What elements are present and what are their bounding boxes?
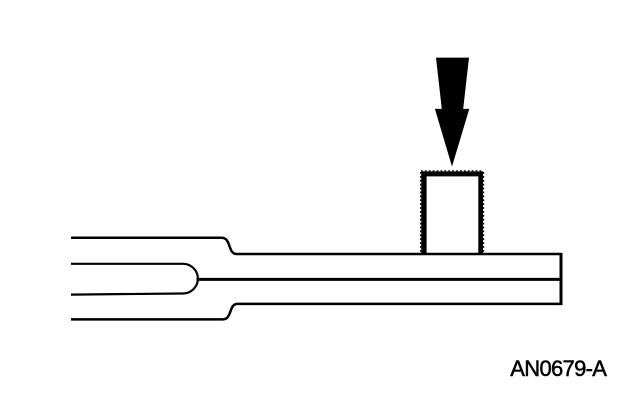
- blade bottom outline: [71, 304, 560, 320]
- svg-text:AN0679-A: AN0679-A: [510, 356, 607, 381]
- slot outline (rounded end): [71, 264, 198, 295]
- arrow pointing down: [435, 58, 469, 167]
- blade middle line: [197, 278, 562, 281]
- block rough outer edge texture: [420, 172, 422, 254]
- block on blade: [421, 171, 483, 254]
- blade right end cap: [560, 253, 563, 305]
- blade top outline: [71, 238, 560, 254]
